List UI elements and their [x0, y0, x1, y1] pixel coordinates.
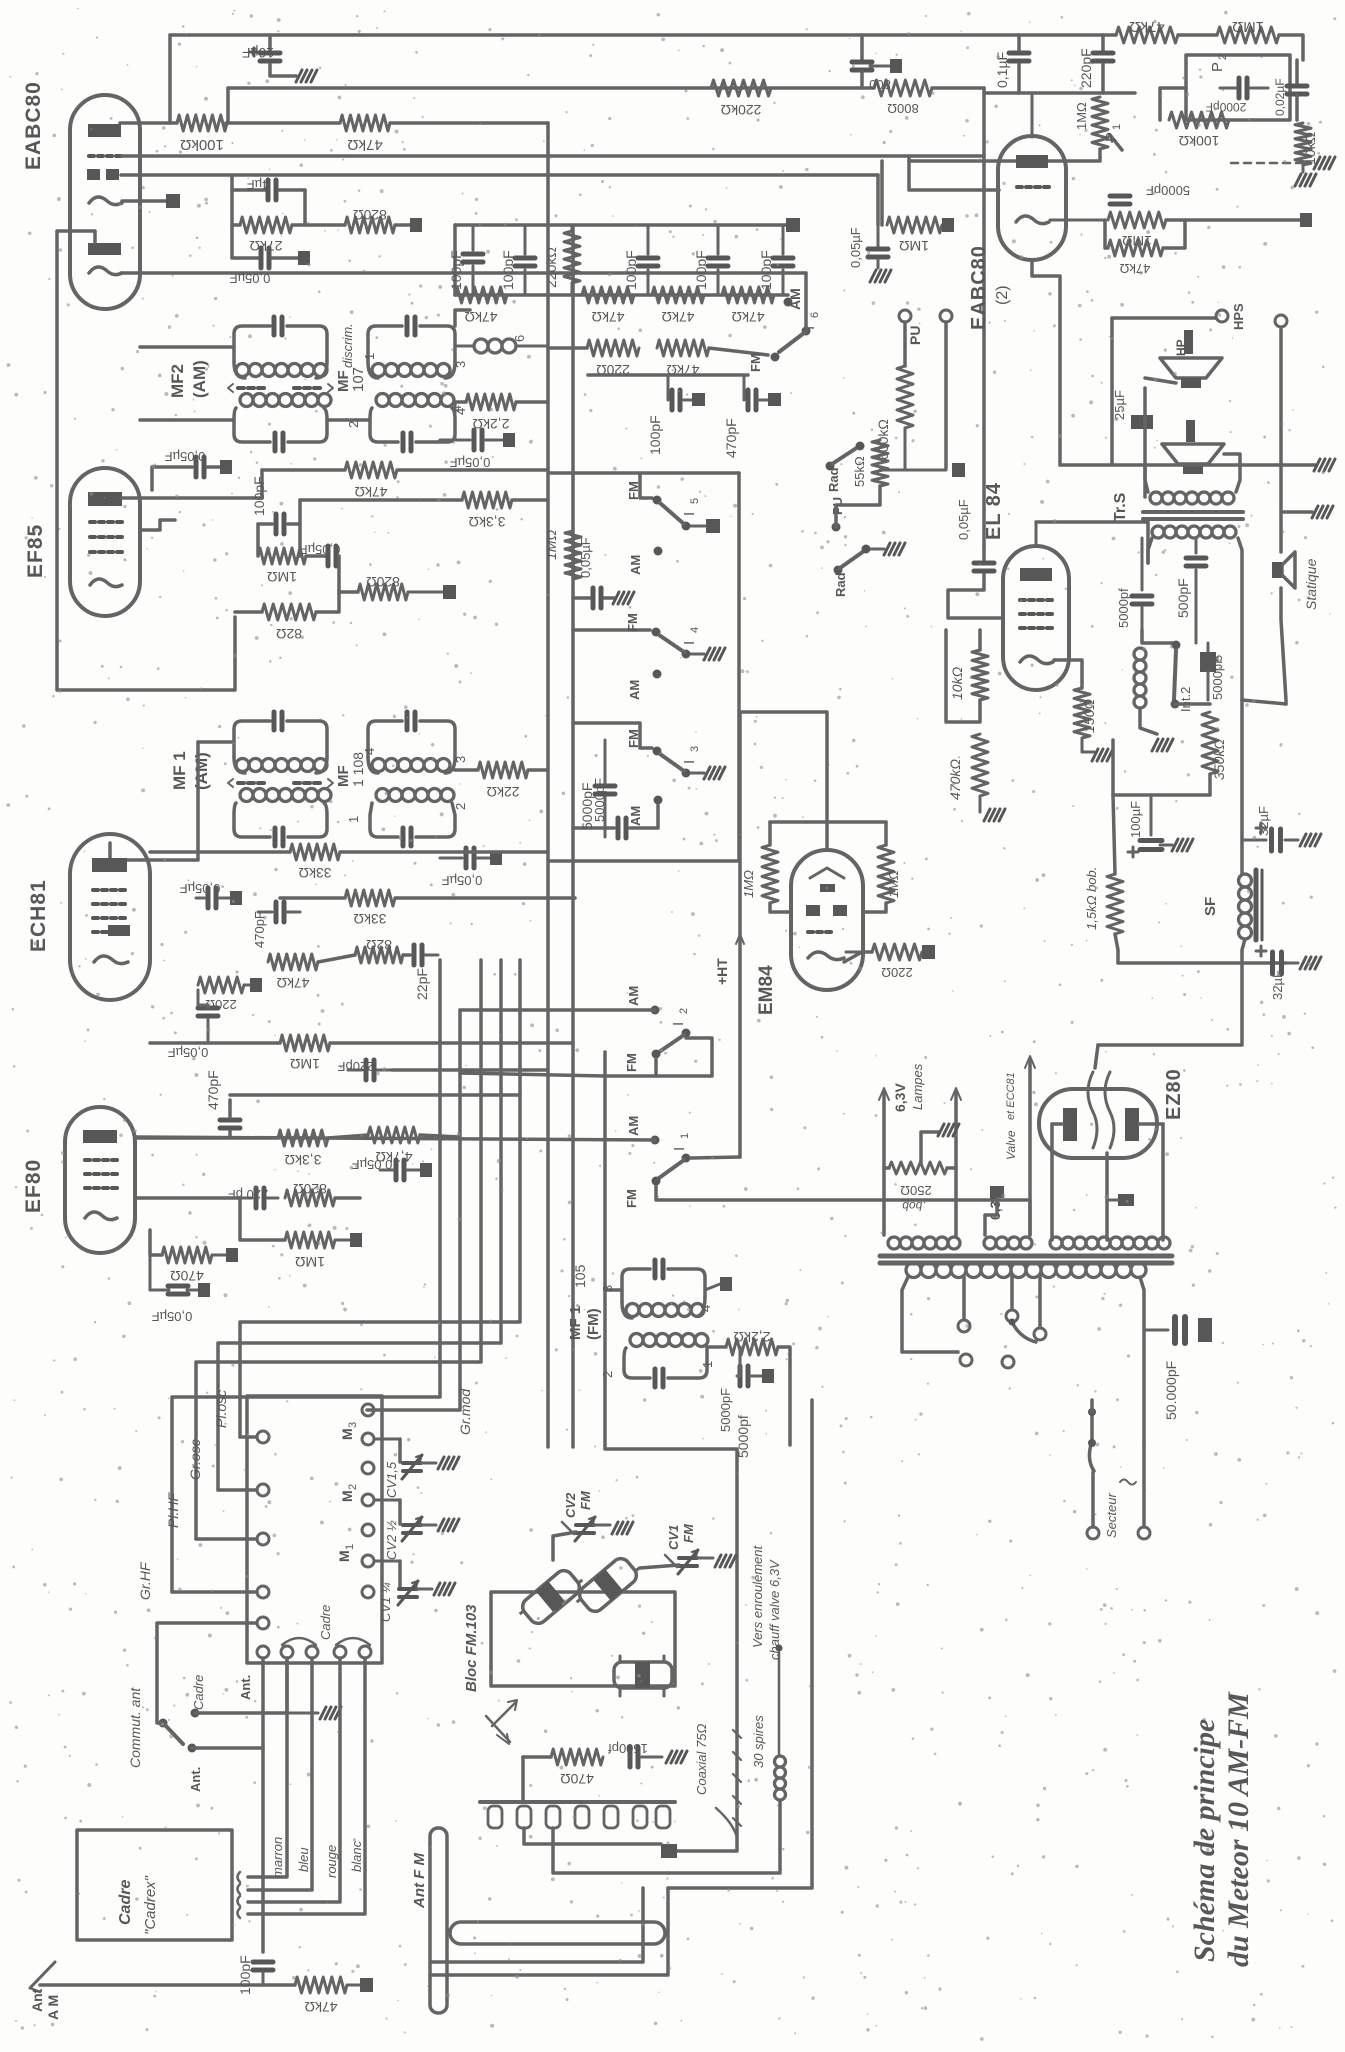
svg-text:FM: FM — [624, 1189, 639, 1208]
wire blanc — [248, 1658, 365, 1914]
wire 5000p drop — [605, 1378, 737, 1851]
resistor 47kΩ I6 — [657, 340, 709, 378]
svg-text:3: 3 — [347, 1422, 359, 1428]
svg-text:47kΩ: 47kΩ — [661, 309, 694, 325]
svg-text:100pF: 100pF — [448, 250, 464, 290]
MF1FM pin2 — [600, 1371, 615, 1378]
wire secteur b — [1142, 1445, 1146, 1527]
switch I2 — [659, 1008, 691, 1052]
wire I1 am feed — [135, 1137, 655, 1140]
wire top bus right segment — [1178, 33, 1217, 37]
EZ80 label — [1163, 1068, 1185, 1120]
resistor 350kΩ — [1202, 712, 1227, 780]
svg-text:5000pf: 5000pf — [735, 1415, 751, 1458]
wire EL84 plate to trs — [1036, 522, 1148, 563]
secteur terminal b — [1138, 1527, 1150, 1539]
wire I2 branch — [0, 0, 2, 2]
resistor 1MΩ out — [1108, 212, 1166, 249]
wire em top drop l — [768, 822, 772, 845]
M1 label — [336, 1544, 356, 1562]
EABC80 label — [22, 81, 45, 170]
svg-text:Int.2: Int.2 — [1178, 687, 1193, 712]
svg-text:Ant.: Ant. — [238, 1675, 253, 1700]
block terminal left — [257, 1586, 269, 1598]
resistor 82Ω ech — [355, 937, 403, 963]
resistor 470Ω fm — [551, 1749, 603, 1787]
svg-text:220kΩ: 220kΩ — [721, 102, 762, 118]
Ant FM — [411, 1828, 665, 2013]
comb tooth — [604, 1806, 618, 1828]
svg-text:3,3kΩ: 3,3kΩ — [469, 514, 506, 530]
wire 10k top — [978, 630, 982, 650]
EABC80 2 grid dots — [1017, 185, 1049, 189]
resistor 1MΩ det — [887, 217, 954, 254]
switch Int2 — [1171, 641, 1194, 713]
wire 1,5k link — [1113, 795, 1115, 874]
trimmer CV2 FM — [562, 1490, 633, 1541]
wire EF85 top to MF2 — [150, 467, 154, 490]
tube EM84 — [791, 850, 863, 990]
Pl.osc label — [213, 1390, 229, 1428]
wire 33k a right — [340, 850, 548, 854]
EM84 target — [810, 868, 844, 892]
secteur label — [1104, 1480, 1136, 1539]
wire bus2 — [228, 86, 874, 90]
wire grosc link — [218, 1488, 257, 1492]
selector lever — [1009, 1319, 1037, 1343]
wire ef80 k — [135, 1196, 240, 1200]
wire speakers bottom bus — [1060, 463, 1315, 467]
wire main bus x548 — [546, 123, 550, 1447]
comb top bar — [480, 1800, 675, 1804]
svg-text:(AM): (AM) — [190, 360, 209, 398]
wire 470 left — [150, 1230, 162, 1255]
svg-text:1MΩ: 1MΩ — [543, 530, 559, 560]
EM84 plates — [806, 905, 847, 916]
wire 250 right — [947, 1166, 956, 1170]
EF85 label — [24, 524, 47, 578]
wire sec right tap — [1140, 1277, 1144, 1445]
wire P1 top bus — [984, 91, 1135, 95]
capacitor 0,05µF ef80 — [352, 1157, 432, 1180]
wire 33k b left — [280, 896, 345, 900]
resistor 220kΩ bus2 — [711, 80, 771, 118]
wire comb right — [668, 1871, 780, 1875]
choke SF — [1202, 870, 1262, 940]
resistor 47kΩ top right — [1116, 18, 1178, 43]
MF2 secondary — [234, 394, 331, 452]
svg-text:Rad: Rad — [833, 572, 848, 597]
wire cathode2 bus y273 — [121, 271, 806, 275]
svg-text:33kΩ: 33kΩ — [298, 865, 331, 881]
switch block outline — [247, 1396, 382, 1663]
wire bus2 drop left — [226, 88, 230, 123]
150 gnd — [1082, 738, 1113, 761]
svg-text:Lampes: Lampes — [910, 1063, 925, 1110]
EABC80 cathode 2 — [89, 267, 122, 275]
svg-text:Bloc FM.103: Bloc FM.103 — [463, 1604, 480, 1692]
wire 33k a left — [150, 850, 290, 854]
wire PU right drop — [944, 322, 948, 468]
block terminal bottom — [281, 1646, 293, 1658]
wire top HT bus — [170, 33, 1116, 37]
switch I6 — [779, 312, 821, 352]
capacitor 22pF — [414, 945, 438, 1000]
speaker HP2 label — [1186, 420, 1195, 442]
capacitor 32µF a — [1256, 806, 1271, 836]
wire M3 gnd link — [0, 0, 2, 2]
wire HT down to EZ80 — [1098, 963, 1242, 1045]
MF1 label — [170, 751, 211, 790]
svg-text:100pF: 100pF — [758, 250, 774, 290]
svg-text:A M: A M — [45, 1995, 61, 2020]
svg-text:ECH81: ECH81 — [27, 879, 50, 952]
MF3 pin4 — [453, 408, 468, 415]
block terminal left — [257, 1431, 269, 1443]
MF1b pins — [346, 748, 468, 823]
FM contact I4 — [625, 613, 661, 636]
speaker HP1 — [1160, 339, 1222, 388]
svg-text:1: 1 — [1111, 124, 1123, 130]
selector circle 3 — [1034, 1328, 1046, 1340]
resistor 800Ω — [874, 80, 932, 116]
svg-text:et ECC81: et ECC81 — [1005, 1072, 1017, 1120]
FM contact I6 — [748, 353, 780, 373]
wire comb link3 — [0, 0, 2, 2]
comb tooth — [633, 1806, 647, 1828]
AM contact dot — [784, 298, 793, 307]
ECH81 cathode — [94, 956, 128, 964]
svg-text:EF80: EF80 — [22, 1159, 45, 1213]
svg-text:(FM): (FM) — [585, 1308, 602, 1340]
wire bloc bottom wire2 — [430, 1888, 668, 1975]
svg-text:(2): (2) — [994, 285, 1011, 305]
0,05µF ech2 label — [168, 1045, 209, 1060]
svg-text:100kΩ: 100kΩ — [180, 136, 224, 153]
resistor 1MΩ EF85 — [258, 548, 306, 585]
svg-text:82Ω: 82Ω — [276, 626, 302, 642]
statique gnd — [1312, 506, 1333, 518]
speaker HP2 — [1162, 444, 1224, 474]
secteur terminal a — [1087, 1527, 1099, 1539]
potentiometer 250Ω bob — [889, 1124, 959, 1213]
resistor 150Ω — [1074, 688, 1097, 738]
svg-text:SF: SF — [1202, 897, 1219, 916]
capacitor 0,02µF — [1273, 60, 1307, 120]
EF80 grid rows — [85, 1160, 117, 1188]
wire hp1 link — [1145, 378, 1176, 383]
resistor 100kΩ P2 — [1169, 112, 1229, 149]
switch I1 — [659, 1133, 691, 1178]
ECH81 label — [27, 879, 50, 952]
trimmer CV1 FM — [665, 1523, 736, 1574]
EABC80 plate — [88, 124, 121, 137]
wire commut up — [157, 1623, 257, 1723]
capacitor 2000pF — [1206, 78, 1268, 114]
wire main bus x573 — [571, 225, 575, 1447]
speaker HP1 label — [1184, 330, 1193, 354]
svg-text:marron: marron — [270, 1837, 285, 1878]
EABC80 plate lead — [120, 121, 177, 125]
svg-text:10kΩ: 10kΩ — [1302, 132, 1318, 165]
svg-text:4: 4 — [450, 405, 464, 412]
wire bus156 drop — [982, 154, 986, 158]
svg-text:0,05µF: 0,05µF — [956, 499, 971, 540]
wire 1,5k bottom — [1115, 934, 1118, 963]
wire trans to I1fm — [0, 0, 2, 2]
svg-text:CV1,5: CV1,5 — [384, 1461, 399, 1498]
svg-text:1MΩ: 1MΩ — [290, 1056, 320, 1072]
svg-text:32µF: 32µF — [1256, 806, 1271, 836]
svg-text:CV2 ½: CV2 ½ — [384, 1520, 399, 1560]
EL84 label — [983, 482, 1005, 540]
wire cv2 lead — [553, 1532, 576, 1560]
MF1FM pin4 — [698, 1277, 732, 1312]
HPS terminals — [1216, 303, 1287, 330]
resistor 1MΩ ef80 — [285, 1232, 362, 1270]
svg-text:1: 1 — [700, 1361, 715, 1368]
svg-text:55kΩ: 55kΩ — [852, 456, 867, 487]
wire I1 fm down — [656, 1186, 1030, 1235]
resistor 47kΩ row4 — [722, 287, 774, 325]
wire hplate corner — [1242, 700, 1286, 704]
wire bus x501 — [218, 960, 501, 1490]
svg-text:I: I — [671, 1147, 688, 1151]
wire I6 lead — [709, 348, 768, 355]
resistor 27kΩ — [232, 190, 305, 254]
EL84 cathode lead — [1054, 660, 1082, 688]
svg-text:FM: FM — [625, 613, 640, 632]
wire sec tap 2 — [962, 1277, 966, 1318]
svg-text:1MΩ: 1MΩ — [267, 569, 297, 585]
svg-text:Cadre: Cadre — [191, 1675, 206, 1710]
svg-text:0,02µF: 0,02µF — [1273, 78, 1287, 116]
heater gnd — [985, 1186, 1004, 1235]
wire vert x878 — [876, 175, 880, 225]
resistor 220Ω — [587, 340, 639, 378]
wire 3,3k left ef80 — [135, 1136, 278, 1140]
resistor 47kΩ ech — [268, 954, 318, 991]
wire secteur a — [1090, 1412, 1094, 1441]
wire box bottom — [548, 859, 739, 863]
wire statique down — [1281, 588, 1286, 704]
wire 1M ef80 left — [240, 1198, 285, 1240]
800 ground — [870, 59, 902, 73]
svg-text:100pF: 100pF — [237, 1955, 253, 1995]
svg-text:1MΩ: 1MΩ — [886, 870, 901, 898]
EZ80 heater — [1088, 1072, 1114, 1148]
wire secteur a2 — [1091, 1472, 1095, 1527]
capacitor 5000pF fm body — [595, 740, 615, 837]
wire y963 rail — [1118, 961, 1286, 965]
svg-text:I: I — [681, 641, 698, 645]
wire EZ80 plate l — [1050, 1124, 1054, 1240]
wire 3,3k left — [300, 498, 462, 502]
wire I5 feed — [548, 473, 652, 498]
svg-text:350kΩ: 350kΩ — [1211, 739, 1227, 780]
svg-text:AM: AM — [627, 680, 642, 700]
Tr.S secondary — [1152, 526, 1236, 538]
wire 30sp down — [778, 1800, 782, 1871]
transformer core — [880, 1256, 1172, 1263]
5000pF label bloc — [735, 1415, 751, 1458]
capacitor 100pF EF85 — [251, 476, 300, 534]
wire bleu — [248, 1658, 312, 1890]
wire 47k EF85 right — [397, 468, 548, 472]
svg-text:27kΩ: 27kΩ — [249, 238, 282, 254]
MF1 primary — [234, 712, 327, 773]
wire 4,7k link — [328, 1135, 368, 1138]
wire grid drop x909 — [909, 156, 999, 190]
svg-text:Secteur: Secteur — [1104, 1493, 1119, 1538]
wire ant down — [261, 1658, 265, 1952]
resistor 470Ω ef80 — [162, 1247, 238, 1284]
wire grhf label line — [0, 0, 2, 2]
tube EZ80 — [1039, 1089, 1157, 1158]
Gr.HF label — [137, 1561, 153, 1600]
svg-text:1MΩ: 1MΩ — [741, 870, 756, 898]
svg-text:1,5kΩ bob.: 1,5kΩ bob. — [1084, 867, 1099, 930]
svg-text:470pF: 470pF — [723, 418, 739, 458]
svg-text:25µF: 25µF — [1112, 390, 1127, 420]
capacitor 0,05µF MF2 — [440, 402, 515, 470]
resistor 82Ω — [262, 604, 316, 642]
Rad2 ground — [871, 543, 905, 555]
svg-text:47kΩ: 47kΩ — [1119, 261, 1150, 276]
svg-text:HPS: HPS — [1231, 303, 1246, 330]
svg-text:1MΩ: 1MΩ — [1074, 102, 1089, 130]
svg-text:105: 105 — [572, 1264, 588, 1288]
svg-text:22kΩ: 22kΩ — [486, 784, 519, 800]
capacitor 220pF ef80 — [228, 1187, 278, 1208]
svg-text:4: 4 — [698, 1305, 713, 1312]
wire 82 left — [235, 610, 262, 614]
svg-text:1MΩ: 1MΩ — [1232, 18, 1264, 35]
potentiometer P1 — [1074, 97, 1123, 150]
block terminal right — [362, 1586, 374, 1598]
trimmer CV2 — [374, 1500, 459, 1560]
AM contact I5 — [628, 547, 663, 576]
svg-text:500pF: 500pF — [1175, 578, 1191, 618]
wire 47k EF85 left — [262, 468, 345, 472]
capacitor 0,05µF MF1 — [440, 848, 502, 888]
wire 350k bottom — [1208, 774, 1212, 795]
svg-text:M: M — [339, 1490, 355, 1502]
svg-text:Ant F M: Ant F M — [411, 1853, 428, 1909]
bleu label — [296, 1847, 311, 1872]
speakers bottom gnd — [1314, 459, 1335, 471]
svg-text:Tr.S: Tr.S — [1112, 492, 1129, 522]
wire em left bus — [738, 712, 742, 1157]
svg-text:2: 2 — [347, 1484, 359, 1490]
Bloc FM label — [463, 1604, 480, 1692]
Coaxial 75Ω label — [694, 1724, 737, 1838]
Cadre label block — [318, 1605, 333, 1640]
feedback coil — [1134, 648, 1225, 708]
resistor 470kΩ — [947, 734, 988, 800]
wire fb bottom — [1140, 708, 1157, 734]
Ant label near block — [238, 1675, 253, 1700]
block terminal left — [257, 1646, 269, 1658]
wire rouge — [248, 1658, 340, 1902]
resistor 1MΩ ech — [280, 1035, 330, 1072]
MF discrim label — [335, 323, 367, 392]
svg-text:FM: FM — [626, 729, 641, 748]
ECH81 grid rows — [93, 890, 125, 932]
30 spires coil — [751, 1715, 786, 1800]
svg-text:47kΩ: 47kΩ — [354, 484, 387, 500]
svg-text:EL 84: EL 84 — [983, 482, 1005, 540]
wire EZ80 ct — [1105, 1153, 1109, 1240]
wire y795 left up — [1111, 740, 1115, 795]
EM84 cathode lead — [844, 952, 872, 962]
wire ech out — [403, 953, 410, 957]
wire bus3 to main vertical — [390, 121, 548, 125]
wire det2 link — [1105, 220, 1108, 248]
EM84 label — [756, 965, 777, 1015]
svg-text:820Ω: 820Ω — [293, 1181, 327, 1197]
wire fb top — [1142, 630, 1176, 643]
wire primary top right — [1090, 1400, 1094, 1412]
EL84 cathode — [1020, 656, 1053, 664]
ECH81 plate — [92, 858, 127, 872]
wire 220Ω left — [548, 346, 587, 350]
block terminal right — [362, 1404, 374, 1416]
capacitor 500pF — [1175, 538, 1206, 643]
Gr.mod label — [457, 1388, 473, 1435]
MF2 in lead — [140, 345, 234, 349]
wire 82 right — [316, 592, 339, 612]
wire 22k right — [528, 768, 548, 772]
svg-text:AM: AM — [628, 806, 643, 826]
capacitor 50000pF — [1144, 1317, 1212, 1420]
resistor 55kΩ — [852, 440, 888, 487]
resistor 10kΩ right — [1295, 123, 1318, 186]
svg-text:4µF: 4µF — [247, 177, 270, 192]
wire 1M ech left — [150, 1041, 280, 1045]
svg-text:5000pf: 5000pf — [1116, 588, 1131, 628]
ECH81 plate lead — [0, 0, 1, 1]
wire cv1 lead — [640, 1565, 679, 1568]
wire 3,3k right — [512, 498, 548, 502]
capacitor 5000pF mf1fm — [718, 1347, 774, 1432]
canister 1 — [515, 1564, 587, 1630]
svg-text:150Ω: 150Ω — [1081, 699, 1097, 733]
svg-text:107: 107 — [350, 367, 367, 392]
wire 820 left — [339, 590, 358, 594]
svg-text:6: 6 — [512, 335, 527, 342]
capacitor 1500pF — [608, 1741, 687, 1767]
svg-text:100pF: 100pF — [500, 250, 516, 290]
capacitor 5000pF det — [1110, 183, 1190, 204]
svg-text:P: P — [1209, 62, 1226, 72]
resistor 1MΩ em l — [741, 845, 778, 903]
wire antfm link — [447, 1928, 450, 1932]
6,3V lamp arrows — [879, 1063, 961, 1235]
svg-text:82Ω: 82Ω — [366, 937, 392, 953]
Commut.ant label — [127, 1687, 143, 1768]
wire 470 fm left — [523, 1755, 551, 1759]
svg-text:Coaxial 75Ω: Coaxial 75Ω — [694, 1724, 709, 1795]
svg-text:1: 1 — [344, 1544, 356, 1550]
block terminal bottom — [306, 1646, 318, 1658]
svg-text:2,2kΩ: 2,2kΩ — [734, 1329, 771, 1345]
wire 100p/1M left — [256, 524, 260, 556]
svg-text:+HT: +HT — [714, 958, 730, 985]
svg-text:PU: PU — [907, 326, 923, 345]
MF2 label — [168, 360, 209, 398]
wire grid box feed — [230, 175, 234, 190]
